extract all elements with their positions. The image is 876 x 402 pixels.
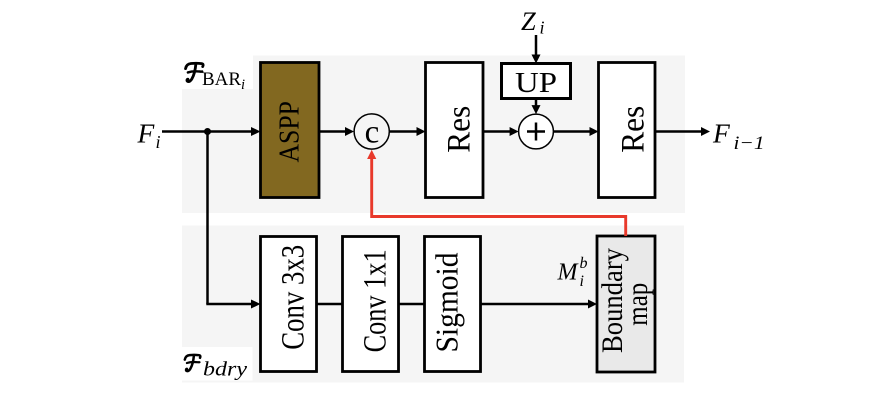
svg-text:F: F [137,118,156,149]
svg-text:map: map [621,283,654,326]
wire concat to Res [389,130,417,133]
svg-text:bdry: bdry [203,359,247,381]
wire Conv 3x3 to Conv 1x1 [317,303,343,306]
wire Res to adder [483,130,510,133]
svg-text:UP: UP [515,68,557,99]
white patch behind F_BAR_i label [182,56,253,90]
Conv 3x3 block [261,237,317,372]
wire junction down to bottom branch [206,132,209,305]
wire adder to Res 2 [553,130,590,133]
concat node c [354,114,389,149]
svg-text:BAR: BAR [202,69,241,90]
wire Sigmoid to Boundary map [481,303,590,306]
wire UP to adder [535,99,538,107]
svg-text:Res: Res [616,106,652,153]
white patch behind F_bdry label [182,347,253,381]
Res block 1 [426,63,484,198]
wire ASPP to concat [319,130,346,133]
svg-text:Conv 1x1: Conv 1x1 [358,249,394,352]
wire F_i to ASPP [162,130,253,133]
svg-text:ASPP: ASPP [275,101,306,163]
svg-text:i: i [156,132,161,152]
bottom bdry module panel background [182,226,684,383]
svg-text:i: i [241,77,245,93]
svg-text:F: F [712,118,731,149]
Res block 2 [599,63,656,198]
top BAR module panel background [182,56,685,214]
label F_BAR_i : script F [186,63,204,81]
svg-text:M: M [557,260,580,286]
svg-text:i: i [580,273,584,290]
svg-text:b: b [580,255,588,272]
ASPP block [261,63,320,198]
wire Z_i to UP [535,35,538,55]
svg-text:Conv 3x3: Conv 3x3 [276,245,312,350]
Boundary map block [597,236,655,372]
Sigmoid block [425,237,481,372]
label F_bdry : script F [185,355,201,371]
svg-text:Z: Z [521,6,536,36]
svg-text:c: c [365,115,380,151]
adder node + [519,114,554,149]
wire to Conv 3x3 [206,303,252,306]
wire Res 2 to output F_i-1 [655,130,702,133]
wire Conv 1x1 to Sigmoid [399,303,425,306]
svg-text:Res: Res [442,106,478,153]
UP block [502,64,571,99]
node junction on input wire [204,128,211,135]
Conv 1x1 block [343,237,399,372]
svg-text:i−1: i−1 [734,133,765,154]
svg-text:Sigmoid: Sigmoid [429,253,465,353]
svg-text:i: i [540,18,545,38]
red feedback wire Boundary map to concat [372,159,626,237]
